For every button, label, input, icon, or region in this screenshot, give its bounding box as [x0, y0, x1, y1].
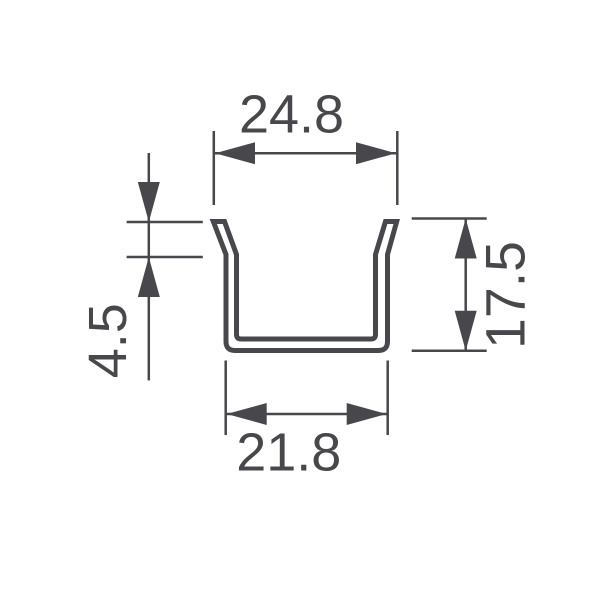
dim 24.8 extension line left: [213, 131, 216, 205]
dim 21.8 extension line right: [386, 361, 389, 436]
dim 24.8 extension line right: [396, 131, 399, 205]
dim 17.5 arrowhead down: [455, 311, 477, 351]
dim 17.5 extension line bottom: [412, 349, 487, 352]
svg-text:24.8: 24.8: [239, 85, 344, 145]
dim 4.5 upper tail line: [148, 153, 151, 222]
dim 4.5 connecting line: [148, 222, 151, 257]
svg-text:17.5: 17.5: [475, 241, 537, 349]
dim 4.5 arrowhead up: [138, 257, 160, 297]
svg-text:4.5: 4.5: [78, 303, 138, 378]
dim 4.5 arrowhead down: [138, 182, 160, 222]
dim 21.8 dimension line: [226, 413, 388, 416]
dim 4.5 extension line lower: [127, 256, 203, 259]
dim 24.8 dimension line: [214, 152, 397, 155]
dim 17.5 arrowhead up: [455, 219, 477, 259]
dim 24.8 arrowhead right: [356, 142, 396, 164]
dim 4.5 lower tail line: [148, 257, 151, 380]
dim 21.8 arrowhead left: [227, 403, 267, 425]
dim 17.5 dimension line: [464, 219, 467, 351]
dim 21.8 arrowhead right: [347, 403, 387, 425]
dim 17.5 extension line top: [412, 217, 487, 220]
dim 4.5 extension line upper: [127, 221, 203, 224]
U-channel profile outline: [213, 222, 396, 351]
dim 24.8 arrowhead left: [215, 142, 255, 164]
svg-text:21.8: 21.8: [236, 423, 341, 483]
dim 21.8 extension line left: [224, 361, 227, 436]
